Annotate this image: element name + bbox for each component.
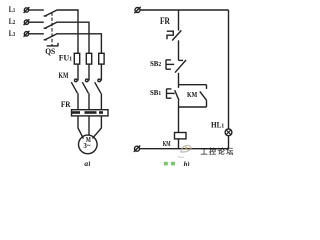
svg-text:FR: FR <box>61 99 71 109</box>
svg-text:KM: KM <box>187 91 198 99</box>
svg-text:FU1: FU1 <box>59 53 72 62</box>
svg-text:SB2: SB2 <box>150 60 161 68</box>
svg-text:工控论坛: 工控论坛 <box>201 147 235 156</box>
svg-text:FR: FR <box>160 15 171 26</box>
svg-text:KM: KM <box>163 141 171 148</box>
svg-text:a): a) <box>84 159 91 166</box>
svg-text:b): b) <box>184 159 191 166</box>
svg-text:KM: KM <box>59 71 69 80</box>
svg-text:3~: 3~ <box>83 142 91 150</box>
svg-text:SB1: SB1 <box>150 89 161 97</box>
svg-text:QS: QS <box>45 47 55 57</box>
